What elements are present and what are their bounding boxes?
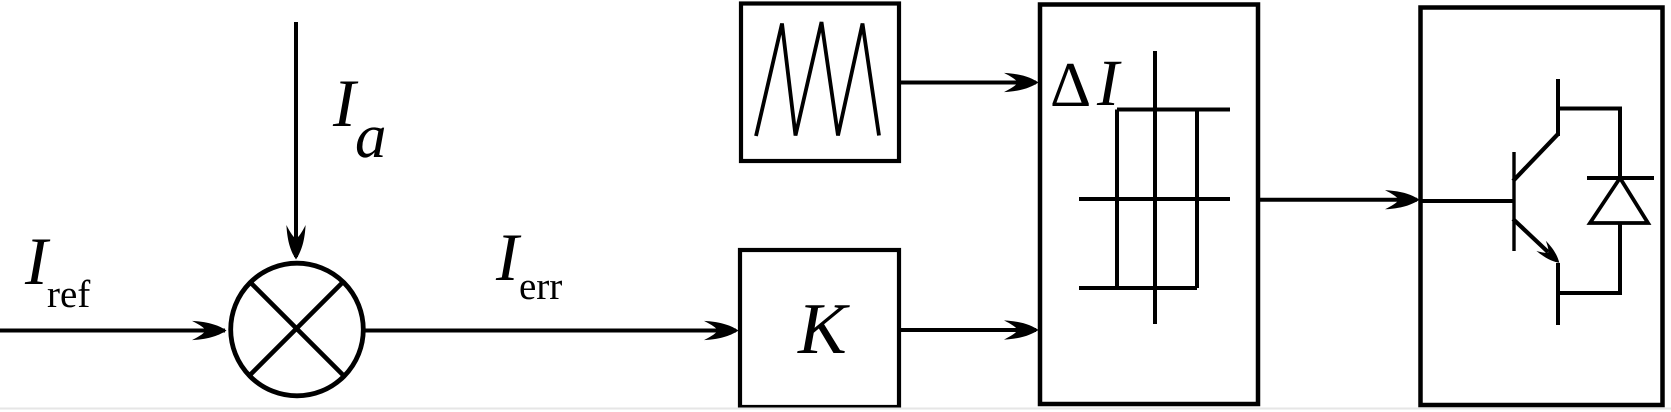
diode D1: cathode bar xyxy=(1587,176,1654,180)
wire: Iref input arrow into summing junction xyxy=(0,329,225,333)
hysteresis curve: horizontal axis xyxy=(1079,197,1230,201)
hysteresis curve: upper level xyxy=(1117,108,1230,112)
block: triangular carrier generator xyxy=(741,4,899,162)
diode D1: cathode lead (upper) xyxy=(1618,107,1622,179)
triangle wave xyxy=(756,22,879,136)
wire: Ierr from summing junction to K block xyxy=(363,329,736,333)
node Delta I label xyxy=(1052,64,1088,106)
hysteresis curve: vertical axis xyxy=(1153,51,1157,324)
wire: hysteresis output to switch block xyxy=(1258,198,1417,202)
faint page rule at bottom xyxy=(0,408,1671,410)
summing junction (circle with X) xyxy=(231,263,364,396)
transistor Q1: collector diagonal xyxy=(1513,134,1558,181)
transistor Q1: base lead xyxy=(1421,199,1514,203)
diode D1: triangle xyxy=(1590,178,1648,223)
wire: top connector to diode xyxy=(1558,107,1620,111)
block K (gain) xyxy=(740,250,899,407)
transistor Q1: base bar xyxy=(1512,152,1515,251)
transistor Q1: emitter vertical xyxy=(1556,263,1560,325)
block: power switch (transistor + diode) xyxy=(1421,8,1663,406)
transistor Q1: collector vertical xyxy=(1556,79,1560,136)
node Ia label xyxy=(333,81,359,126)
wire: bottom connector to diode xyxy=(1558,291,1620,295)
node Iref label xyxy=(25,239,51,284)
wire: Ia input arrow (vertical) into summing junction xyxy=(294,22,298,257)
transistor Q1: emitter diagonal with arrow xyxy=(1513,219,1548,252)
hysteresis curve: left transition xyxy=(1115,110,1119,289)
block: hysteresis comparator (Delta I) xyxy=(1040,5,1258,405)
wire: carrier to hysteresis block xyxy=(899,81,1036,85)
diode D1: anode lead (lower) xyxy=(1618,223,1622,295)
hysteresis curve: right transition xyxy=(1195,110,1199,289)
hysteresis curve: lower level xyxy=(1079,286,1197,290)
wire: K output to hysteresis block xyxy=(899,328,1036,332)
node Ierr label xyxy=(496,235,522,280)
